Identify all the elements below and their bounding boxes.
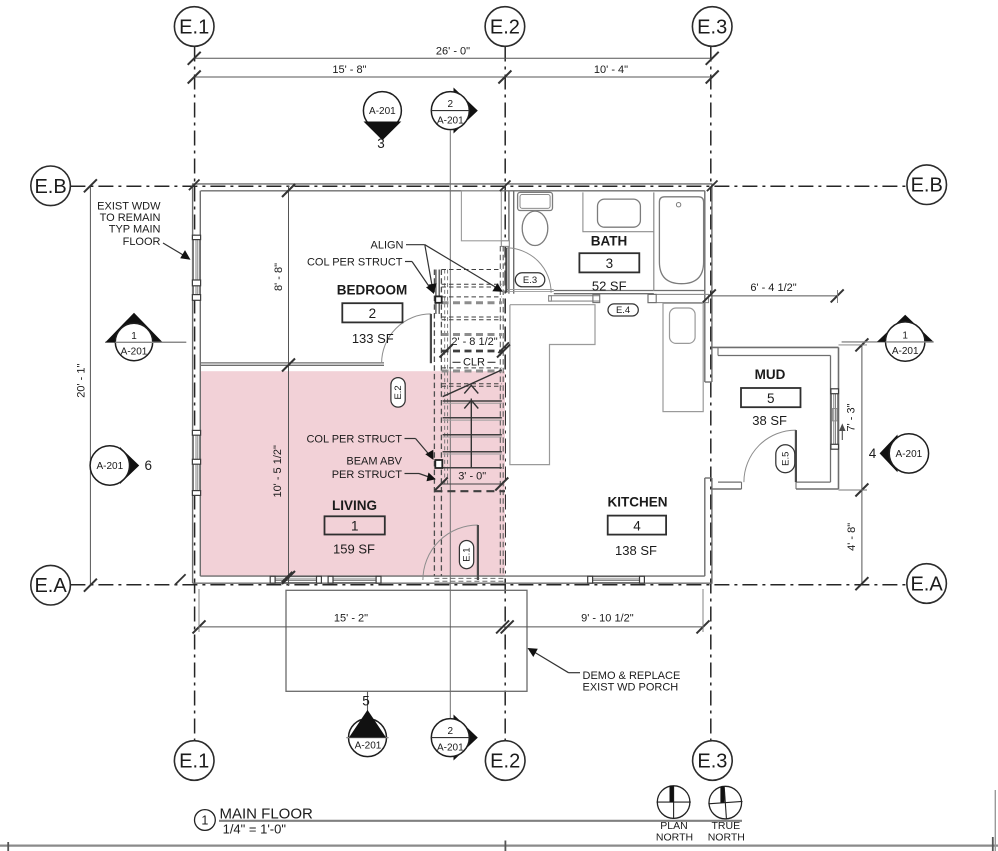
bathtub [659,197,703,284]
wall tub alcove west [653,192,655,290]
closet wall stub [501,241,509,247]
annotation COL PER STRUCT (upper) [307,257,435,295]
svg-text:A-201: A-201 [369,106,396,117]
svg-text:BATH: BATH [591,233,628,248]
annotation ALIGN with two leaders [370,240,502,294]
wall top exterior [192,184,712,191]
wall kitchen north header bar 1 (opening E.4 at right) [549,294,600,302]
column marker lower (COL PER STRUCT) [435,460,442,468]
porch outline [286,590,527,691]
svg-text:2' - 8 1/2": 2' - 8 1/2" [451,336,497,348]
stair stringer dashed lines [445,270,448,485]
svg-text:5: 5 [362,694,370,709]
svg-text:E.1: E.1 [179,751,209,773]
kitchen counter L [510,305,595,465]
annotation DEMO & REPLACE EXIST WD PORCH [528,648,681,694]
door entry E.1 (leaf + swing) [423,525,478,580]
corner tick E.3/top wall [707,181,718,192]
title underline [219,820,742,822]
stair lower flight treads [443,401,502,468]
svg-text:NORTH: NORTH [656,832,693,844]
dimension 15'-8" / 10'-4" (top row 2) [188,64,719,83]
svg-text:E.2: E.2 [393,385,404,399]
sheet border tick right [992,837,994,851]
door tag E.1 (entry) [459,541,473,569]
section marker 1/A-201 (left section head) [105,313,186,361]
sheet border tick left [7,842,9,851]
stair west dashed wall [434,270,441,576]
living room floor shading (pink) [201,371,505,576]
door tag E.5 (mud) [776,445,795,473]
svg-text:MUD: MUD [755,367,786,382]
svg-text:10' - 4": 10' - 4" [594,64,628,76]
door mud E.5 (leaf + swing) [744,430,796,482]
svg-text:7' - 3": 7' - 3" [846,403,858,431]
gridline E.B (horizontal) [70,185,907,187]
svg-text:E.A: E.A [34,575,67,597]
gridline E.1 (vertical) [194,47,196,741]
door tag E.3 (bath) [515,273,545,287]
mud window egress arrow [840,425,845,440]
window bottom wall kitchen [588,576,645,583]
svg-text:133 SF: 133 SF [352,331,394,346]
stair upper flight thin dashed tread lines [442,270,502,387]
wall mud south (door opening x 741.5-796) [712,482,839,489]
svg-text:A-201: A-201 [892,346,919,357]
svg-text:6' - 4 1/2": 6' - 4 1/2" [750,282,796,294]
wall bedroom south (with door opening x 384-431) [200,363,384,365]
title view number circle [195,810,216,831]
grid bubble E.A left [31,565,71,605]
svg-text:COL PER STRUCT: COL PER STRUCT [307,257,403,269]
dimension 3'-0" (stair width) [435,471,509,491]
sink [598,199,641,227]
section marker 3/A-201 (top detail callout) [363,92,401,151]
svg-text:EXIST WD PORCH: EXIST WD PORCH [583,682,679,694]
svg-text:COL PER STRUCT: COL PER STRUCT [306,434,402,446]
svg-text:PER STRUCT: PER STRUCT [332,469,403,481]
svg-text:2: 2 [448,99,454,110]
section marker 1/A-201 (right section head) [842,315,934,362]
grid bubble E.B left [31,166,71,206]
svg-text:E.3: E.3 [697,17,727,39]
wall mud north [712,347,839,355]
column marker upper (COL PER STRUCT) [435,296,441,302]
dimension 7'-3" (mud right) [839,338,869,496]
svg-text:4: 4 [869,446,877,461]
grid bubble E.1 bottom [174,741,214,781]
room label MUD [741,367,801,428]
vanity counter [583,192,654,231]
svg-text:2: 2 [448,726,454,737]
dimension 2'-8 1/2" CLR (stair clear width) [440,336,511,369]
stair break line (diagonal) [443,370,502,397]
section marker 2/A-201 (top section head) [431,88,478,134]
stair up-direction arrow [464,385,478,467]
svg-text:2: 2 [369,306,377,321]
svg-text:DEMO & REPLACE: DEMO & REPLACE [583,670,681,682]
svg-text:EXIST WDW: EXIST WDW [97,201,161,213]
elevation marker 6/A-201 (left) [90,446,152,485]
wall bath south (door opening x 506-554) [554,291,705,294]
svg-text:A-201: A-201 [96,461,123,472]
corner tick E.1/E.B [189,180,200,191]
wall left exterior [193,184,201,583]
svg-text:1/4" = 1'-0": 1/4" = 1'-0" [223,822,287,837]
svg-text:20' - 1": 20' - 1" [76,364,88,398]
svg-text:3: 3 [606,256,614,271]
wall mud east (window at y 389-449) [831,347,839,489]
svg-text:TO REMAIN: TO REMAIN [100,212,161,224]
svg-text:3: 3 [377,136,385,151]
elevation marker 4/A-201 (right) [869,434,929,473]
svg-text:4' - 8": 4' - 8" [846,523,858,551]
dimension 20'-1" (left) [76,179,97,591]
annotation COL PER STRUCT (lower) [306,434,433,461]
section marker 2/A-201 (bottom section head) [431,715,478,761]
svg-text:E.B: E.B [34,176,66,198]
svg-text:138 SF: 138 SF [615,543,657,558]
window left wall upper assembly [192,235,200,300]
svg-text:5: 5 [767,391,775,406]
svg-text:FLOOR: FLOOR [123,236,161,248]
svg-text:A-201: A-201 [121,347,148,358]
plan north compass [656,786,693,844]
closet bedroom NE [461,191,501,241]
corner tick porch NW [282,572,293,583]
wall kitchen north header bar 2 [648,294,709,302]
svg-text:CLR: CLR [463,357,485,369]
svg-text:PLAN: PLAN [660,820,687,832]
window bottom wall living 2 [328,576,381,583]
svg-text:9' - 10 1/2": 9' - 10 1/2" [581,612,634,624]
grid bubble E.2 bottom [485,741,525,781]
svg-text:E.1: E.1 [179,17,209,39]
wall bedroom east stub [436,270,439,314]
svg-text:1: 1 [351,519,359,534]
svg-text:15' - 8": 15' - 8" [332,64,366,76]
svg-text:159 SF: 159 SF [333,541,375,556]
door bedroom (leaf + swing) [382,314,431,363]
door tag E.2 (bedroom) [391,378,405,408]
svg-text:1: 1 [902,330,908,341]
room label KITCHEN [608,494,668,558]
corner tick E.2/counter [498,342,509,353]
svg-text:E.2: E.2 [490,751,520,773]
room label LIVING [325,498,385,557]
stair upper flight thick grey dashed treads [442,303,502,371]
svg-text:E.A: E.A [910,574,943,596]
svg-text:8' - 8": 8' - 8" [273,263,285,291]
svg-text:E.1: E.1 [462,547,473,561]
wire section line 2/A-201 (vertical cut line) [449,131,451,719]
wall right exterior (opening to mud between y=382 and y=478) [705,184,712,583]
svg-text:38 SF: 38 SF [752,413,787,428]
dimension 15'-2" / 9'-10 1/2" (bottom) [193,589,710,633]
beam above dashed line [434,490,505,492]
sheet border line bottom [0,844,998,846]
grid bubble E.B right [907,165,947,205]
grid bubble E.3 top [692,7,732,47]
true north compass [707,785,745,843]
annotation EXIST WDW TO REMAIN TYP MAIN FLOOR [97,201,190,260]
sheet border right edge [994,790,996,851]
door bath E.3 (leaf + swing + sill) [506,248,554,293]
svg-text:E.B: E.B [911,175,943,197]
grid bubble E.A right [907,564,947,604]
sheet border tick middle [504,841,506,851]
window left wall lower assembly [192,430,200,495]
door tag E.4 (kitchen opening) [608,304,638,316]
corner tick E.A/left [175,574,186,585]
svg-text:10' - 5 1/2": 10' - 5 1/2" [272,445,284,498]
svg-text:1: 1 [131,331,137,342]
svg-text:E.2: E.2 [490,17,520,39]
svg-text:A-201: A-201 [437,742,464,753]
svg-text:A-201: A-201 [896,449,923,460]
wall bath west [509,191,514,294]
svg-text:ALIGN: ALIGN [370,240,403,252]
wall bottom exterior [193,576,713,583]
svg-text:E.3: E.3 [523,275,537,286]
window bottom wall living 1 [270,576,321,583]
bottom wall dashed segment at entry door [434,578,505,581]
section marker 5/A-201 (bottom detail callout) [346,692,388,757]
svg-text:E.4: E.4 [616,305,630,316]
gridline E.3 (vertical) [710,47,712,741]
annotation BEAM ABV PER STRUCT [332,456,436,482]
svg-text:TRUE: TRUE [712,820,741,832]
svg-text:E.5: E.5 [781,452,792,466]
dimension 10'-5 1/2" (living interior) [272,445,295,584]
dimension 4'-8" (right lower) [846,490,868,590]
gridline E.2 (vertical) [504,47,506,741]
room label BATH [579,233,639,293]
gridline E.A (horizontal) [70,584,906,586]
svg-text:NORTH: NORTH [708,832,745,844]
kitchen tall cabinet [663,303,703,411]
room label BEDROOM [337,283,408,346]
svg-text:1: 1 [201,814,208,828]
svg-text:15' - 2": 15' - 2" [334,612,368,624]
svg-text:3' - 0": 3' - 0" [458,471,486,483]
dimension 8'-8" (bedroom interior) [273,184,295,586]
grid bubble E.3 bottom [693,741,733,781]
corner tick E.2/top wall [500,181,511,192]
svg-text:LIVING: LIVING [332,498,377,513]
svg-text:TYP MAIN: TYP MAIN [109,224,161,236]
svg-text:BEAM ABV: BEAM ABV [346,456,402,468]
svg-text:26' - 0": 26' - 0" [436,45,470,57]
window mud east wall [831,389,839,449]
svg-text:52 SF: 52 SF [592,279,627,294]
svg-text:A-201: A-201 [437,115,464,126]
dimension 26'-0" (top overall) [188,45,719,64]
svg-text:E.3: E.3 [697,751,727,773]
stair east dashed wall (living/kitchen divider) [500,246,503,576]
svg-text:BEDROOM: BEDROOM [337,283,408,298]
grid bubble E.2 top [485,7,525,47]
svg-text:KITCHEN: KITCHEN [608,494,668,509]
dimension 6'-4 1/2" (mud top) [703,282,844,303]
svg-text:6: 6 [145,458,153,473]
svg-text:4: 4 [633,518,641,533]
toilet [518,192,553,245]
grid bubble E.1 top [174,7,214,47]
svg-text:A-201: A-201 [355,741,382,752]
